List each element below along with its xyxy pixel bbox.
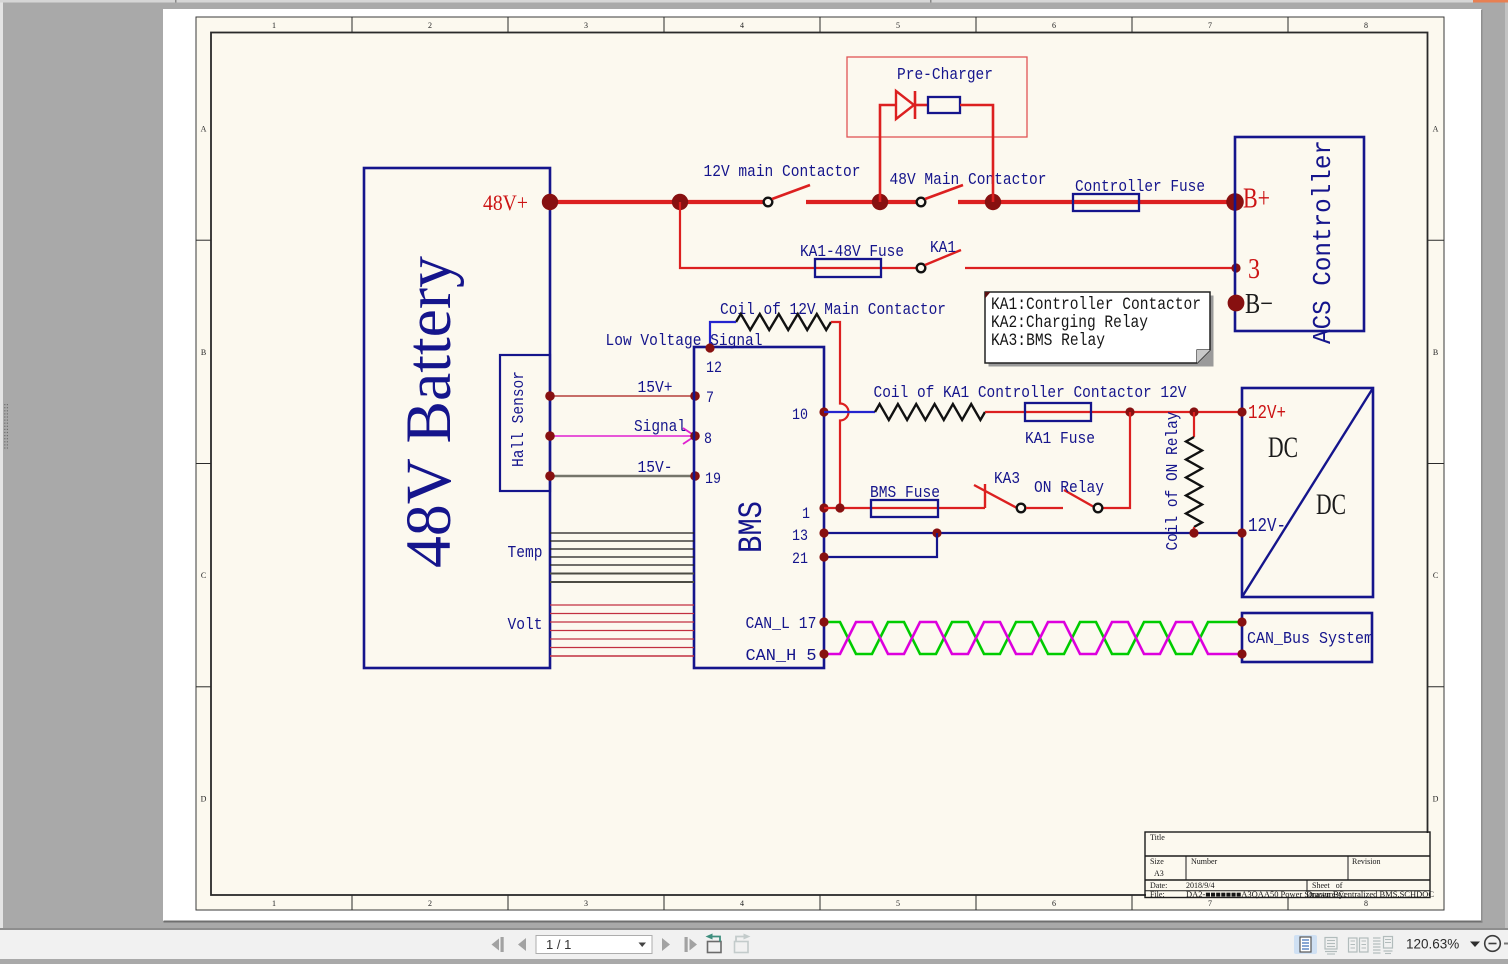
svg-text:12V+: 12V+	[1248, 402, 1286, 424]
svg-text:48V Battery: 48V Battery	[393, 256, 465, 568]
continuous view button	[1325, 938, 1337, 950]
node CAN pin 17	[819, 617, 828, 626]
svg-text:8: 8	[704, 430, 712, 448]
wire coil to KA1 fuse	[985, 411, 1240, 413]
svg-text:21: 21	[792, 550, 808, 568]
note box KA1 KA2 KA3	[985, 292, 1210, 363]
node ON relay coil bottom	[1189, 528, 1198, 537]
title block row lines	[1145, 855, 1430, 857]
hall sensor box	[500, 355, 550, 491]
zoom slider fragment	[1504, 943, 1508, 945]
svg-text:1: 1	[802, 505, 810, 523]
left edge light strip	[0, 3, 3, 930]
wire diode to resistor	[915, 104, 928, 107]
wire 48V+ rail segment mid	[806, 200, 917, 204]
sheet frame inner	[211, 33, 1428, 896]
node junction ON relay riser	[1125, 407, 1134, 416]
resistor R1 pre-charge	[928, 97, 960, 113]
svg-text:8: 8	[1364, 21, 1368, 30]
title block column lines	[1185, 856, 1187, 880]
svg-text:15V-: 15V-	[638, 459, 673, 478]
svg-text:6: 6	[1052, 21, 1056, 30]
svg-text:4: 4	[740, 899, 744, 908]
sheet frame outer	[196, 17, 1444, 910]
svg-text:7: 7	[706, 389, 714, 407]
top strip remnants	[0, 0, 1508, 3]
first page button	[492, 939, 500, 951]
node Signal pin8	[690, 431, 700, 441]
svg-text:A3: A3	[1154, 869, 1164, 878]
orange corner fragment	[1473, 0, 1508, 3]
node pin 10	[819, 407, 828, 416]
svg-text:Number: Number	[1191, 857, 1218, 866]
svg-text:1: 1	[272, 21, 276, 30]
node pin 1	[819, 503, 828, 512]
volt sense wires	[550, 604, 694, 606]
coil of KA1 controller contactor	[875, 404, 985, 420]
svg-text:Size: Size	[1150, 857, 1164, 866]
svg-text:DC: DC	[1316, 488, 1346, 521]
svg-text:BMS: BMS	[734, 501, 772, 553]
svg-text:CAN_H 5: CAN_H 5	[746, 647, 817, 666]
svg-text:3: 3	[1248, 254, 1260, 285]
svg-text:B+: B+	[1243, 183, 1270, 215]
node 15V+ pin7	[690, 391, 700, 401]
svg-text:BMS Fuse: BMS Fuse	[870, 484, 940, 503]
svg-text:1 / 1: 1 / 1	[546, 937, 571, 952]
svg-text:Temp: Temp	[508, 544, 543, 563]
svg-text:Coil of KA1 Controller Contact: Coil of KA1 Controller Contactor 12V	[874, 384, 1188, 403]
prev page button	[518, 938, 526, 951]
node junction precharge left	[872, 194, 888, 210]
splitter grip dots	[4, 404, 8, 449]
node 12V+	[1237, 407, 1246, 416]
wire pin 13 to 12V-	[824, 532, 1242, 534]
temp sensor wires	[550, 532, 694, 534]
node junction pin 21 join	[932, 528, 941, 537]
switch KA3 contact	[984, 484, 986, 508]
svg-text:7: 7	[1208, 899, 1212, 908]
fuse KA1-48V Fuse	[815, 259, 881, 277]
node junction coil drop	[835, 503, 844, 512]
zone ticks and labels	[196, 17, 1444, 910]
svg-text:2: 2	[428, 899, 432, 908]
wire riser ON relay to 12V+ rail	[1102, 412, 1130, 508]
svg-text:Coil of 12V Main Contactor: Coil of 12V Main Contactor	[720, 301, 946, 320]
wire precharge right leg	[960, 105, 993, 202]
next view button (disabled)	[735, 942, 749, 953]
svg-text:120.63%: 120.63%	[1406, 937, 1459, 952]
wire pin 21 loop	[824, 533, 937, 557]
previous view button	[708, 942, 722, 953]
svg-text:ON Relay: ON Relay	[1034, 479, 1104, 498]
wire KA1 branch down	[680, 202, 917, 268]
svg-text:1: 1	[272, 899, 276, 908]
switch 12V main Contactor	[764, 198, 773, 207]
svg-text:19: 19	[705, 470, 721, 488]
svg-text:DC: DC	[1268, 431, 1298, 464]
svg-text:KA1 Fuse: KA1 Fuse	[1025, 430, 1095, 449]
svg-text:Signal: Signal	[634, 418, 686, 437]
svg-text:Sheet of: Sheet of	[1312, 881, 1343, 890]
wire KA1 to ACS pin 3	[965, 267, 1233, 269]
svg-text:6: 6	[1052, 899, 1056, 908]
page number box	[536, 936, 652, 954]
node CAN box H	[1237, 649, 1246, 658]
svg-text:10: 10	[792, 406, 808, 424]
svg-text:B−: B−	[1245, 288, 1273, 320]
svg-text:A: A	[1433, 125, 1439, 134]
CAN_Bus System box	[1242, 613, 1372, 662]
battery 48V Battery box	[364, 168, 550, 668]
last page button	[685, 937, 688, 952]
svg-text:A: A	[201, 125, 207, 134]
twisted pair CAN_L green	[824, 622, 1240, 654]
svg-text:Hall Sensor: Hall Sensor	[510, 371, 529, 467]
node pin 21	[819, 552, 828, 561]
twisted pair CAN_H magenta	[824, 622, 1240, 654]
svg-text:C: C	[201, 571, 206, 580]
wire 48V+ rail segment to B+	[958, 200, 1233, 204]
svg-text:2: 2	[428, 21, 432, 30]
fuse KA1 Fuse	[1025, 403, 1091, 421]
svg-text:Controller Fuse: Controller Fuse	[1075, 178, 1205, 197]
svg-text:KA1:Controller Contactor: KA1:Controller Contactor	[991, 295, 1201, 315]
wire coil right to pin 1, with hop over pin10 wire	[831, 322, 849, 508]
svg-text:7: 7	[1208, 21, 1212, 30]
svg-text:B: B	[1433, 348, 1438, 357]
wire 48V+ rail segment battery to contactor	[550, 200, 764, 204]
switch KA1	[917, 264, 926, 273]
wire KA3 to ON relay	[1026, 507, 1063, 509]
fuse Controller Fuse	[1073, 194, 1139, 211]
pre-charger box	[847, 57, 1027, 137]
svg-text:13: 13	[792, 527, 808, 545]
fuse BMS Fuse	[871, 500, 938, 517]
separator above statusbar	[0, 928, 1508, 930]
svg-text:B: B	[201, 348, 206, 357]
svg-text:KA2:Charging Relay: KA2:Charging Relay	[991, 313, 1148, 333]
svg-text:CAN_Bus System: CAN_Bus System	[1247, 630, 1373, 649]
svg-text:Low Voltage Signal: Low Voltage Signal	[606, 332, 763, 351]
DC/DC diagonal	[1242, 388, 1373, 597]
node junction KA1 branch	[672, 194, 688, 210]
switch 48V Main Contactor	[917, 198, 926, 207]
wire pin 10 to coil	[824, 411, 875, 413]
wire ON relay coil to 12V-	[1193, 527, 1195, 533]
wire 12V+ to ON relay coil	[1193, 412, 1195, 437]
node pin 13	[819, 528, 828, 537]
wire 15V+ hall to BMS pin 7	[550, 395, 695, 397]
svg-text:KA1-48V Fuse: KA1-48V Fuse	[800, 243, 904, 262]
svg-text:Volt: Volt	[508, 616, 543, 635]
svg-text:KA3:BMS Relay: KA3:BMS Relay	[991, 331, 1105, 351]
wire Signal hall to BMS pin 8	[550, 435, 693, 437]
two page view button	[1349, 938, 1358, 952]
svg-text:D: D	[1433, 794, 1439, 803]
svg-text:C: C	[1433, 571, 1438, 580]
svg-text:15V+: 15V+	[638, 379, 673, 398]
svg-text:Date:: Date:	[1150, 881, 1167, 890]
svg-text:3: 3	[584, 21, 588, 30]
node ACS pin 3	[1231, 263, 1240, 272]
svg-text:3: 3	[584, 899, 588, 908]
node 12V-	[1237, 528, 1246, 537]
svg-text:Pre-Charger: Pre-Charger	[897, 66, 993, 85]
BMS U1 box	[694, 347, 824, 668]
DC/DC converter box	[1242, 388, 1373, 597]
wire 15V- hall to BMS pin 19	[550, 475, 695, 478]
svg-text:Title: Title	[1150, 833, 1165, 842]
zoom dropdown caret	[1470, 942, 1480, 948]
coil of ON Relay	[1186, 437, 1202, 527]
arrow Signal into pin 8	[683, 428, 695, 444]
single page view button (active)	[1294, 935, 1317, 954]
switch ON Relay contact	[1064, 490, 1094, 507]
two page continuous button	[1373, 937, 1381, 939]
svg-text:CAN_L 17: CAN_L 17	[746, 615, 817, 634]
diode D1 pre-charge	[896, 91, 914, 119]
wire coil to pin 12	[710, 322, 736, 346]
svg-text:Drawn By:: Drawn By:	[1306, 890, 1346, 899]
next page button	[662, 938, 670, 951]
node CAN box L	[1237, 617, 1246, 626]
svg-text:KA1: KA1	[930, 239, 956, 258]
zoom out button	[1485, 936, 1501, 952]
title block background patch	[1146, 833, 1429, 897]
svg-text:File:: File:	[1150, 890, 1165, 899]
svg-text:Coil of ON Relay: Coil of ON Relay	[1164, 412, 1183, 551]
node Signal hall	[545, 431, 555, 441]
right edge light strip	[1505, 3, 1508, 930]
svg-text:12V-: 12V-	[1248, 515, 1286, 537]
svg-text:12: 12	[706, 359, 722, 377]
node junction precharge right	[985, 194, 1001, 210]
svg-text:2018/9/4: 2018/9/4	[1186, 881, 1214, 890]
node 15V- hall	[545, 471, 555, 481]
node CAN pin 5	[819, 649, 828, 658]
coil L1 of 12V main contactor	[736, 314, 831, 330]
terminal B+	[1226, 193, 1244, 211]
terminal B-	[1228, 295, 1245, 312]
svg-text:8: 8	[1364, 899, 1368, 908]
node 15V- pin19	[690, 471, 700, 481]
svg-text:12V main Contactor: 12V main Contactor	[704, 163, 861, 182]
node junction ON relay coil	[1189, 407, 1198, 416]
node pin 12 top	[705, 343, 714, 352]
svg-text:D: D	[201, 794, 207, 803]
svg-text:48V+: 48V+	[483, 190, 528, 215]
svg-text:ACS Controller: ACS Controller	[1308, 140, 1338, 344]
svg-text:48V Main Contactor: 48V Main Contactor	[890, 171, 1047, 190]
ACS Controller box	[1235, 137, 1364, 331]
svg-text:5: 5	[896, 21, 900, 30]
wire precharge left leg	[880, 105, 896, 202]
node 48V+ battery	[542, 194, 558, 210]
svg-text:5: 5	[896, 899, 900, 908]
node 15V+ hall	[545, 391, 555, 401]
title block outline	[1145, 832, 1430, 898]
svg-text:4: 4	[740, 21, 744, 30]
note box shadow	[989, 296, 1214, 367]
svg-text:Revision: Revision	[1352, 857, 1380, 866]
svg-text:KA3: KA3	[994, 470, 1020, 489]
wire pin 1 to BMS fuse	[824, 507, 985, 509]
